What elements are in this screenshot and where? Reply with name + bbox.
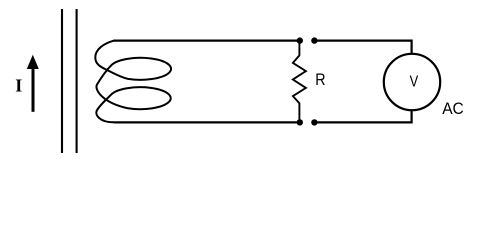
svg-text:R: R: [315, 70, 325, 89]
node dot top-left: [297, 37, 303, 43]
wire top-right to voltmeter: [314, 41, 412, 55]
wire bottom-right to voltmeter: [314, 110, 412, 123]
arrow stem: [32, 67, 35, 112]
conductor line left: [61, 9, 63, 153]
wire bottom: coil to resistor node: [114, 121, 299, 123]
coil L1 (two-turn winding): [95, 41, 171, 123]
svg-text:AC: AC: [442, 99, 464, 118]
node dot bottom-right: [311, 119, 317, 125]
wire top: coil to resistor node: [114, 39, 299, 41]
voltmeter V circle: [384, 54, 440, 110]
svg-text:I: I: [15, 76, 22, 96]
node dot top-right: [311, 37, 317, 43]
resistor R zigzag: [293, 43, 306, 120]
conductor line right: [76, 9, 78, 153]
node dot bottom-left: [297, 119, 303, 125]
svg-text:V: V: [410, 73, 419, 90]
arrow head: [27, 55, 39, 69]
